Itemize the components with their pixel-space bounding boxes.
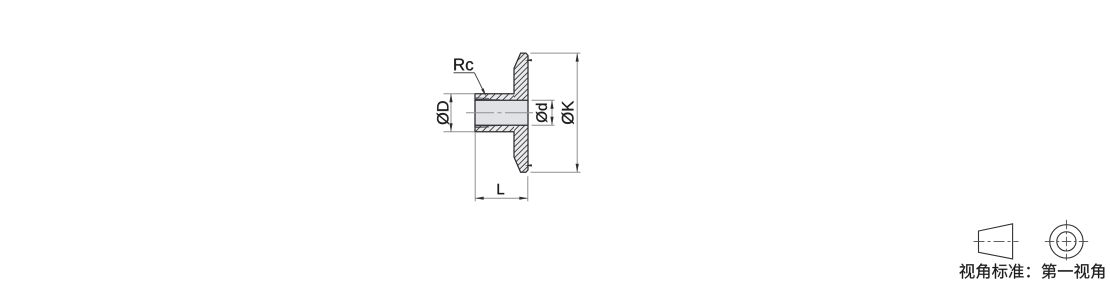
legend text char 准 [1009, 264, 1024, 279]
dimension ØK extension line top [531, 52, 581, 54]
sealing face arrow top head [525, 59, 532, 61]
dimension L arrow left [475, 197, 484, 200]
legend text char 角 [1091, 264, 1105, 279]
sealing face arrow top tail [527, 59, 531, 61]
dimension ØD extension line bottom [444, 131, 475, 133]
dimension ØD arrow down [449, 123, 452, 132]
dimension L extension line left [474, 133, 476, 202]
hatching lower flange [456, 125, 580, 172]
tube mouth edge across bore [474, 100, 476, 125]
dimension ØD line [450, 94, 452, 132]
thread root line bottom [475, 125, 500, 128]
legend text char ： [1027, 267, 1029, 278]
dimension Ød arrow up [550, 100, 553, 109]
label Rc leader arrowhead [481, 88, 486, 96]
dimension Ød text [536, 104, 547, 123]
legend text char 视 [959, 264, 974, 279]
legend text char 标 [992, 264, 1007, 279]
flange right face across bore [527, 100, 529, 125]
centerline axis [466, 112, 535, 114]
dimension ØK extension line bottom [531, 171, 581, 173]
legend crosshair horizontal [1045, 240, 1088, 242]
dimension Ød extension line top [532, 99, 555, 101]
dimension ØD arrow up [449, 94, 452, 103]
hatching lower tube wall [455, 125, 523, 132]
dimension ØK line [576, 53, 578, 172]
dimension L line [475, 197, 528, 199]
legend cone side view trapezoid [979, 224, 1013, 259]
dimension L arrow right [519, 197, 528, 200]
metal section upper half (tube wall + flange) [475, 53, 528, 100]
section outline upper [475, 53, 528, 100]
legend text char 第 [1042, 263, 1057, 278]
label Rc leader shoulder [454, 72, 475, 74]
legend text char 角 [976, 264, 989, 279]
bore through-hole [475, 100, 528, 125]
dimension ØK text [562, 101, 574, 124]
dimension ØK arrow up [576, 53, 579, 62]
hatching upper flange [456, 53, 580, 100]
section outline lower [475, 125, 528, 172]
legend text char 视 [1074, 264, 1089, 279]
label Rc text [454, 59, 473, 71]
sealing face arrow bottom tail [527, 164, 531, 166]
thread crest line top [475, 97, 489, 100]
dimension ØD extension line top [444, 93, 475, 95]
legend cone centerline [974, 240, 1019, 242]
thread root line top [475, 98, 500, 101]
dimension Ød line [551, 100, 553, 125]
dimension Ød extension line bottom [532, 124, 555, 126]
legend end view inner circle [1057, 232, 1076, 251]
legend text char 一 [1058, 270, 1073, 271]
label Rc leader line [475, 73, 484, 91]
thread crest line bottom [475, 126, 489, 129]
hatching upper tube wall [455, 94, 523, 101]
legend crosshair vertical [1065, 220, 1067, 261]
dimension ØK arrow down [576, 164, 579, 173]
dimension L text [498, 184, 505, 194]
legend end view outer circle [1050, 225, 1083, 258]
dimension ØD text [437, 101, 449, 124]
dimension L extension line right [527, 176, 529, 201]
dimension Ød arrow down [550, 117, 553, 126]
metal section lower half (tube wall + flange) [475, 125, 528, 172]
sealing face arrow bottom head [525, 164, 532, 166]
